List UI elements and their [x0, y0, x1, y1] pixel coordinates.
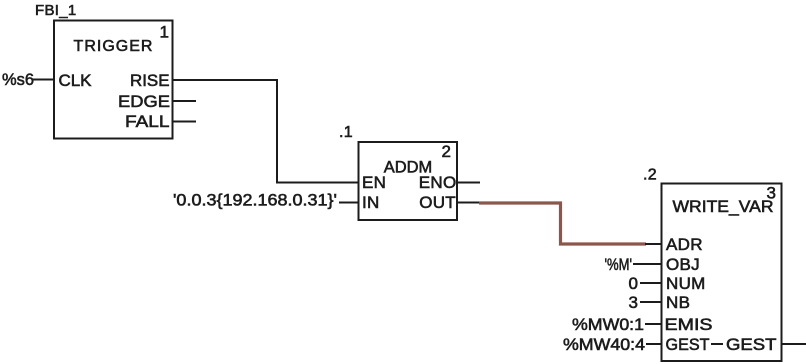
svg-text:.1: .1 [339, 124, 353, 141]
svg-text:EDGE: EDGE [118, 92, 170, 111]
stub wire OUT [457, 202, 480, 204]
svg-text:ADR: ADR [666, 235, 703, 254]
svg-text:ENO: ENO [419, 173, 457, 192]
wire RISE to ADDM EN [173, 80, 359, 183]
svg-text:EN: EN [362, 173, 386, 192]
highlighted wire ADDM OUT to WRITE_VAR ADR [479, 203, 646, 244]
svg-text:RISE: RISE [130, 71, 170, 90]
svg-text:GEST: GEST [726, 335, 777, 354]
svg-text:OUT: OUT [419, 193, 456, 212]
svg-text:NB: NB [666, 293, 690, 312]
wire %s6 to CLK [33, 79, 54, 81]
svg-text:TRIGGER: TRIGGER [74, 38, 154, 55]
dash between GEST input and GEST output [711, 343, 723, 345]
svg-text:2: 2 [442, 142, 451, 161]
function block .2 WRITE_VAR body [662, 184, 782, 362]
svg-text:IN: IN [362, 193, 380, 212]
svg-text:'%M': '%M' [605, 255, 633, 274]
svg-text:EMIS: EMIS [665, 315, 713, 334]
svg-text:CLK: CLK [59, 71, 93, 90]
svg-text:3: 3 [629, 293, 638, 312]
stub wire FALL [173, 121, 197, 123]
stub wire EDGE [173, 100, 197, 102]
svg-text:%s6: %s6 [2, 70, 34, 89]
svg-text:FBI_1: FBI_1 [35, 2, 77, 19]
wire %MW40:4 to GEST input [646, 343, 662, 345]
wire 0 to NUM [640, 282, 662, 284]
svg-text:GEST: GEST [666, 335, 710, 354]
svg-text:.2: .2 [643, 167, 657, 184]
function block .1 ADDM body [359, 142, 458, 220]
stub wire ENO [457, 182, 480, 184]
svg-text:1: 1 [160, 23, 169, 42]
function block FBI_1 TRIGGER body [54, 21, 173, 139]
svg-text:NUM: NUM [666, 274, 706, 293]
svg-text:'0.0.3{192.168.0.31}': '0.0.3{192.168.0.31}' [173, 191, 337, 210]
wire value to IN [339, 202, 359, 204]
svg-text:%MW40:4: %MW40:4 [563, 335, 645, 354]
svg-text:0: 0 [629, 274, 638, 293]
stub wire ADR [645, 243, 661, 245]
wire %MW0:1 to EMIS [645, 323, 662, 325]
svg-text:WRITE_VAR: WRITE_VAR [673, 197, 774, 216]
svg-text:OBJ: OBJ [666, 255, 700, 274]
svg-text:FALL: FALL [125, 112, 170, 131]
svg-text:%MW0:1: %MW0:1 [572, 315, 644, 334]
wire 3 to NB [640, 301, 662, 303]
wire '%M' to OBJ [633, 263, 662, 265]
svg-text:3: 3 [767, 184, 776, 203]
wire GEST output to edge [782, 343, 806, 345]
